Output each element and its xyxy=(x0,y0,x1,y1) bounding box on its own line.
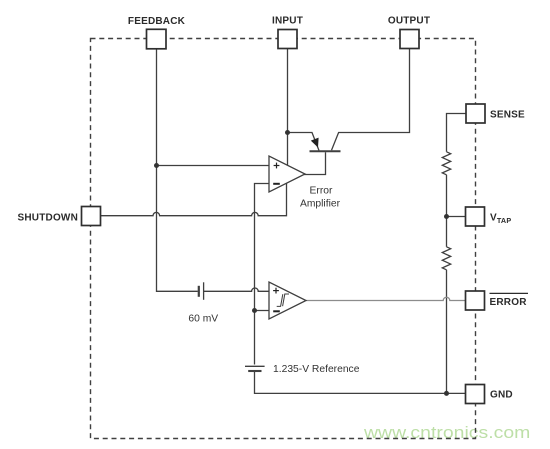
svg-text:GND: GND xyxy=(490,390,513,401)
svg-text:FEEDBACK: FEEDBACK xyxy=(128,16,186,27)
svg-text:INPUT: INPUT xyxy=(272,16,303,27)
svg-text:Error: Error xyxy=(310,186,333,197)
svg-text:SENSE: SENSE xyxy=(490,110,525,121)
svg-text:1.235-V Reference: 1.235-V Reference xyxy=(273,364,360,375)
svg-text:Amplifier: Amplifier xyxy=(300,199,341,210)
svg-text:SHUTDOWN: SHUTDOWN xyxy=(18,213,78,224)
svg-text:OUTPUT: OUTPUT xyxy=(388,16,430,27)
svg-text:60 mV: 60 mV xyxy=(188,314,218,325)
svg-text:ERROR: ERROR xyxy=(490,297,528,308)
